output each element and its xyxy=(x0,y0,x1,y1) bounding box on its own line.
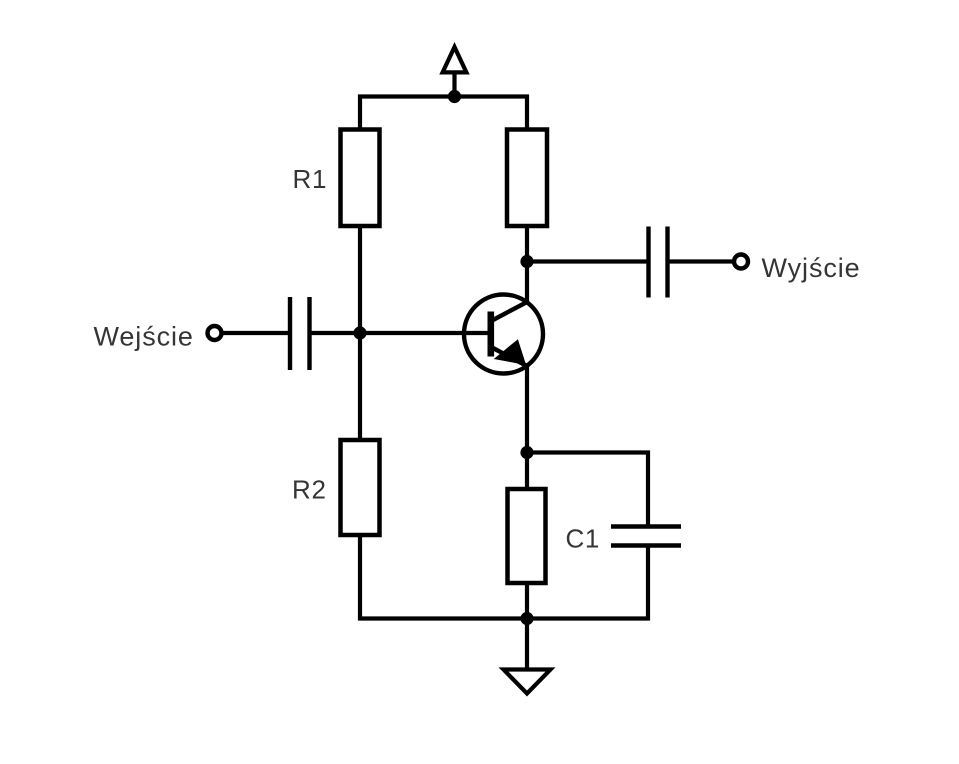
wire transistor emitter to emitter node xyxy=(525,364,529,455)
wire base node to R2 xyxy=(358,333,362,441)
wire emitter node to R4 xyxy=(525,453,529,491)
svg-text:R1: R1 xyxy=(293,164,328,194)
terminal Wejście (input) xyxy=(94,322,222,352)
svg-text:Wejście: Wejście xyxy=(94,322,194,352)
wire emitter node to C1 branch xyxy=(527,453,648,529)
wire R2 to bottom rail xyxy=(358,535,362,621)
power supply VCC symbol xyxy=(443,47,467,97)
terminal Wyjście (output) xyxy=(734,253,861,283)
capacitor C2 (input coupling, unlabeled) xyxy=(290,297,310,370)
wire R4 to bottom rail xyxy=(525,583,529,619)
resistor R2 xyxy=(292,440,380,535)
wire collector node to transistor xyxy=(525,262,529,305)
svg-text:R2: R2 xyxy=(292,475,327,505)
resistor R4 (emitter resistor, unlabeled) xyxy=(508,489,546,583)
resistor R3 (collector resistor, unlabeled) xyxy=(507,130,547,227)
wire R1 to base node xyxy=(358,226,362,334)
wire C2 to transistor base xyxy=(310,331,491,335)
wire collector resistor to collector node xyxy=(525,226,529,263)
ground xyxy=(504,619,551,694)
capacitor C1 xyxy=(566,524,682,554)
transistor Q1 (NPN) xyxy=(464,295,543,374)
node top rail junction xyxy=(448,90,461,103)
node emitter junction xyxy=(520,446,533,459)
node collector junction xyxy=(520,255,533,268)
wire bottom rail xyxy=(358,546,648,619)
wire input terminal to C2 xyxy=(222,331,289,335)
wire top rail xyxy=(360,97,527,132)
wire C3 to output terminal xyxy=(668,259,735,263)
svg-text:C1: C1 xyxy=(566,524,600,554)
svg-text:Wyjście: Wyjście xyxy=(762,253,861,283)
node bottom ground junction xyxy=(520,612,533,625)
wire collector node to C3 xyxy=(527,259,647,263)
resistor R1 xyxy=(293,130,380,227)
node base junction xyxy=(353,326,366,339)
capacitor C3 (output coupling, unlabeled) xyxy=(649,227,668,298)
